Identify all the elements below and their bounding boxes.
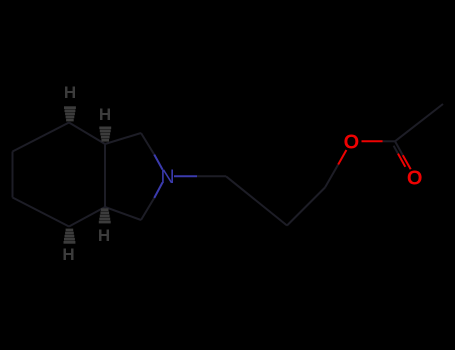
bond C7-C6 — [13, 123, 70, 152]
bond O1-Ccarbonyl (carbon half) — [383, 140, 395, 142]
bond V3-O1 (carbon half) — [325, 165, 338, 188]
svg-text:H: H — [62, 245, 74, 264]
bond C7a-C3a fusion — [104, 144, 106, 207]
bond N-C3 (blue half) — [154, 183, 162, 199]
hashed wedge W2 C7a-H2 — [99, 127, 111, 142]
bond N-C3 (carbon half) — [141, 198, 154, 220]
bond V3-O1 (red half) — [338, 150, 346, 165]
bond C4-C3a — [69, 207, 105, 227]
bond C1-C7a — [105, 133, 141, 144]
svg-text:H: H — [99, 105, 111, 124]
svg-text:N: N — [160, 166, 174, 188]
bond V1-V2 — [226, 176, 287, 225]
svg-text:O: O — [344, 132, 360, 154]
bond N-C1 (blue half) — [154, 155, 162, 170]
bond Ccarbonyl-CH3 — [395, 104, 443, 141]
double bond C=O2 main line red part — [403, 155, 411, 169]
bond V2-V3 — [287, 188, 325, 226]
bond N-CH2 V1 (carbon half) — [197, 175, 226, 177]
hashed wedge W4 C4-H4 — [64, 229, 76, 244]
svg-text:O: O — [407, 167, 423, 189]
hashed wedge W3 C3a-H3 — [99, 208, 111, 223]
bond C6-C5 — [12, 152, 14, 198]
double bond C=O2 second line dark part — [394, 146, 398, 154]
bond C5-C4 — [13, 198, 70, 227]
bond O1-Ccarbonyl (red half) — [362, 140, 383, 142]
svg-text:H: H — [64, 83, 76, 102]
bond N-C1 (carbon half) — [141, 133, 154, 155]
double bond C=O2 second line red part — [398, 154, 405, 167]
hashed wedge W1 C7-H1 — [64, 106, 76, 121]
bond N-CH2 V1 (blue half) — [174, 175, 197, 177]
bond C7a-C7 — [69, 123, 105, 145]
svg-text:H: H — [98, 226, 110, 245]
double bond C=O2 main line dark part — [395, 141, 403, 155]
bond C3-C3a — [105, 207, 141, 220]
